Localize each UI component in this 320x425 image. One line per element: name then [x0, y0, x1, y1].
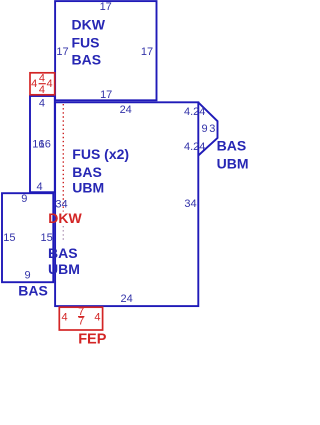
main building section outline (FUS x2 / BAS / UBM) — [55, 102, 198, 306]
svg-text:34: 34 — [184, 198, 196, 210]
svg-text:3: 3 — [209, 123, 215, 135]
svg-text:34: 34 — [55, 198, 67, 210]
upper story building section outline (DKW/FUS/BAS) — [55, 1, 156, 100]
svg-text:DKW: DKW — [48, 210, 82, 226]
svg-text:4.24: 4.24 — [184, 141, 205, 153]
fraction bar of 4/4 labels — [39, 83, 46, 85]
svg-text:7: 7 — [78, 316, 84, 328]
svg-text:4: 4 — [62, 312, 68, 324]
svg-text:4: 4 — [46, 78, 52, 90]
svg-text:4: 4 — [94, 312, 100, 324]
small 4x4 red annex box top-left — [30, 73, 55, 95]
faded dotted interior line (lower part) — [62, 226, 64, 242]
svg-text:DKW: DKW — [72, 16, 106, 32]
svg-text:4: 4 — [39, 98, 45, 110]
left BAS section outline — [2, 193, 53, 282]
svg-text:17: 17 — [100, 89, 112, 101]
svg-text:17: 17 — [141, 46, 153, 58]
svg-text:BAS: BAS — [18, 283, 48, 299]
svg-text:17: 17 — [100, 1, 112, 13]
svg-text:UBM: UBM — [72, 179, 104, 195]
svg-text:24: 24 — [120, 293, 132, 305]
svg-text:15: 15 — [40, 232, 52, 244]
svg-text:BAS: BAS — [217, 138, 247, 154]
svg-text:9: 9 — [21, 193, 27, 205]
bay window notch on right edge — [198, 102, 217, 155]
svg-text:UBM: UBM — [217, 156, 249, 172]
svg-text:BAS: BAS — [72, 51, 102, 67]
svg-text:15: 15 — [3, 232, 15, 244]
FEP red porch box bottom — [59, 307, 102, 330]
svg-text:4: 4 — [36, 181, 42, 193]
svg-text:4: 4 — [39, 84, 45, 96]
svg-text:FUS: FUS — [72, 35, 100, 51]
left narrow strip section outline — [30, 96, 55, 192]
svg-text:16: 16 — [39, 139, 51, 151]
svg-text:24: 24 — [120, 104, 132, 116]
svg-text:BAS: BAS — [48, 245, 78, 261]
svg-text:17: 17 — [56, 46, 68, 58]
svg-text:4.24: 4.24 — [184, 106, 205, 118]
red dotted interior line (upper part) — [62, 104, 64, 212]
svg-text:UBM: UBM — [48, 261, 80, 277]
svg-text:FEP: FEP — [78, 332, 107, 348]
svg-text:4: 4 — [31, 78, 37, 90]
svg-text:9: 9 — [201, 123, 207, 135]
svg-text:9: 9 — [24, 270, 30, 282]
fraction bar of 7/7 labels — [78, 316, 84, 318]
svg-text:4: 4 — [39, 73, 45, 85]
svg-text:FUS (x2): FUS (x2) — [72, 146, 129, 162]
svg-text:BAS: BAS — [72, 164, 102, 180]
